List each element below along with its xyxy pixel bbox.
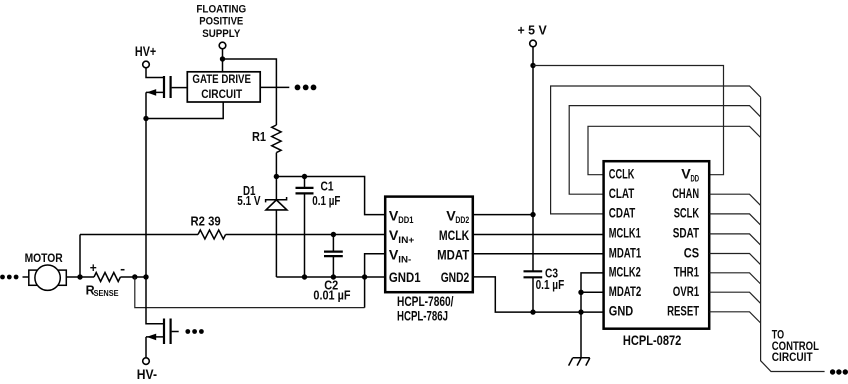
wire CLAT hook (569, 106, 760, 195)
node C3 bottom (530, 309, 535, 314)
svg-text:TO: TO (772, 330, 784, 342)
wire OVR1 (709, 292, 760, 303)
svg-text:CHAN: CHAN (672, 186, 699, 202)
svg-text:MDAT1: MDAT1 (609, 245, 642, 261)
wire MDAT2 stub (581, 291, 604, 293)
wire sense gnd detour (135, 277, 365, 308)
motor M1 (25, 251, 67, 290)
svg-text:DD1: DD1 (398, 215, 413, 225)
wire hook +5V to VDD (533, 66, 724, 175)
wire VIN- (365, 254, 386, 308)
wire RESET (709, 312, 760, 323)
wire VIN+ riser (79, 235, 81, 278)
wire motor to RSENSE (66, 276, 94, 278)
svg-text:POSITIVE: POSITIVE (199, 16, 243, 28)
wire gate drive bottom return (146, 102, 223, 119)
transistor Q2 (146, 319, 179, 345)
wire GND2 route (473, 277, 604, 312)
wire CCLK hook (588, 126, 761, 174)
wire +5V rail (532, 47, 534, 271)
capacitor C2 (313, 235, 350, 303)
svg-text:+ 5 V: + 5 V (518, 23, 548, 38)
pin VDD1 (389, 208, 414, 225)
svg-text:IN+: IN+ (398, 235, 414, 245)
svg-text:HCPL-786J: HCPL-786J (397, 309, 448, 324)
wire VIN+ line (80, 234, 198, 236)
svg-text:CDAT: CDAT (609, 206, 636, 222)
node R1 bottom (274, 174, 279, 179)
wire VDD1 feed (276, 177, 385, 215)
node VDD2 rail (530, 212, 535, 217)
wire motor stub (23, 276, 29, 278)
gate drive box (187, 72, 260, 102)
svg-text:MDAT2: MDAT2 (609, 284, 642, 300)
terminal HV- (143, 358, 150, 365)
svg-text:CS: CS (684, 245, 699, 261)
wire RSENSE to Q1 line (120, 276, 146, 278)
node +5V branch (530, 63, 535, 68)
label TO CONTROL CIRCUIT (772, 330, 819, 365)
wire supply to gate drive box (222, 49, 224, 72)
IC U2 HCPL-0872 box (604, 161, 710, 329)
terminal HV+ (143, 61, 150, 68)
wire THR1 (709, 273, 760, 284)
svg-text:RESET: RESET (667, 304, 699, 320)
wire GND1 (276, 276, 385, 278)
svg-text:GND: GND (609, 304, 633, 320)
svg-text:HV-: HV- (137, 367, 157, 382)
svg-text:MDAT: MDAT (437, 248, 469, 264)
terminal floating supply (219, 42, 226, 49)
op-amp U1 HCPL-7860 box (385, 197, 473, 293)
wire CS (709, 254, 760, 265)
svg-text:MOTOR: MOTOR (25, 251, 63, 265)
node Q1 source / gate return (143, 116, 148, 121)
svg-text:SUPPLY: SUPPLY (202, 28, 240, 40)
svg-text:CLAT: CLAT (609, 186, 635, 202)
wire HV+ to Q1 drain (146, 68, 163, 78)
wire Q1 source down (145, 92, 147, 277)
svg-text:HV+: HV+ (135, 44, 156, 59)
svg-text:OVR1: OVR1 (673, 284, 699, 300)
node VIN- GND1 (362, 274, 367, 279)
pin VIN+ (389, 228, 414, 245)
node sense minus (132, 274, 137, 279)
svg-text:0.1 µF: 0.1 µF (536, 277, 565, 292)
resistor RSENSE (86, 273, 121, 299)
resistor R2 (191, 213, 226, 239)
wire MDAT to MDAT1 (473, 253, 604, 255)
wire supply branch to R1 (223, 59, 277, 125)
transistor Q1 (146, 76, 187, 98)
node gnd tie (578, 309, 583, 314)
svg-text:SDAT: SDAT (673, 226, 700, 242)
svg-text:R1: R1 (252, 129, 266, 144)
svg-text:HCPL-0872: HCPL-0872 (623, 333, 682, 348)
capacitor C1 (296, 177, 341, 278)
wire Q2 drain (146, 277, 163, 324)
wire control bus (761, 97, 825, 371)
resistor R1 (252, 125, 281, 177)
svg-text:CONTROL: CONTROL (772, 341, 819, 353)
label FLOATING POSITIVE SUPPLY (196, 3, 246, 40)
svg-text:MCLK1: MCLK1 (609, 226, 641, 242)
wire SCLK (709, 214, 760, 225)
wire VDD2 to rail (473, 214, 533, 216)
ground (569, 358, 590, 366)
pin VDD (681, 167, 699, 184)
svg-text:CIRCUIT: CIRCUIT (201, 89, 242, 101)
terminal +5V (530, 40, 537, 47)
node C1 bottom (302, 274, 307, 279)
wire Q2 source to HV- (145, 337, 147, 358)
node C2 top (331, 232, 336, 237)
node Q chain (143, 274, 148, 279)
node MDAT2 (578, 290, 583, 295)
svg-text:IN-: IN- (398, 254, 411, 264)
wire MCLK2 MDAT2 gnd tie (581, 273, 604, 358)
dots motor left (0, 275, 5, 280)
diode D1 zener (237, 177, 287, 278)
svg-text:SCLK: SCLK (674, 206, 700, 222)
node motor plus (77, 274, 82, 279)
dots Q2 gate (185, 329, 190, 334)
wire CDAT hook (551, 86, 761, 214)
svg-text:0.1 µF: 0.1 µF (312, 193, 340, 208)
svg-text:THR1: THR1 (674, 265, 699, 281)
svg-text:HCPL-7860/: HCPL-7860/ (397, 294, 454, 309)
wire CHAN (709, 194, 760, 205)
capacitor C3 (524, 265, 565, 312)
wire SDAT (709, 234, 760, 245)
svg-text:FLOATING: FLOATING (196, 3, 246, 15)
wire gate drive output (260, 86, 289, 88)
pin VDD2 (446, 208, 469, 225)
svg-text:SENSE: SENSE (94, 288, 119, 298)
svg-text:CCLK: CCLK (609, 167, 635, 183)
pin VIN- (389, 248, 411, 265)
dots gate drive output (295, 85, 301, 91)
svg-text:C1: C1 (321, 179, 334, 194)
svg-text:MCLK2: MCLK2 (609, 265, 641, 281)
svg-text:MCLK: MCLK (439, 228, 470, 244)
svg-text:R2 39: R2 39 (191, 213, 221, 228)
node C2 bottom (331, 274, 336, 279)
node C1 top (302, 174, 307, 179)
node supply branch (220, 56, 225, 61)
svg-text:GND1: GND1 (389, 270, 421, 286)
wire MCLK to MCLK1 (473, 234, 604, 236)
svg-text:CIRCUIT: CIRCUIT (772, 352, 813, 364)
wire R2 to VIN+ pin (226, 234, 386, 236)
svg-text:GND2: GND2 (441, 270, 470, 286)
svg-text:-: - (120, 261, 125, 276)
svg-text:GATE DRIVE: GATE DRIVE (192, 74, 251, 86)
svg-text:0.01 µF: 0.01 µF (313, 288, 350, 303)
svg-text:5.1 V: 5.1 V (237, 193, 260, 208)
svg-text:DD: DD (691, 173, 700, 183)
svg-text:DD2: DD2 (455, 215, 469, 225)
dots control bus (830, 369, 835, 374)
